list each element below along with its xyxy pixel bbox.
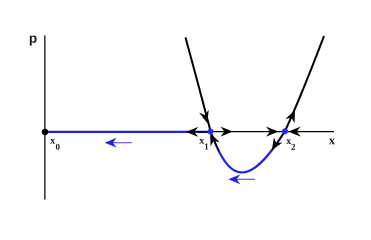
p-axis (vertical axis) [44, 36, 46, 200]
wire blue trajectory x0 to x1 on axis [45, 131, 211, 133]
arrow up-left into x1 along blue dip [207, 133, 217, 144]
arrow up-right out of x2 along right branch [287, 110, 297, 121]
p-axis label [30, 36, 37, 46]
black separatrix left branch into x1 [186, 38, 211, 132]
label x1 [199, 139, 204, 144]
arrow right on axis right of x1 [222, 128, 231, 135]
arrow left on axis left of x1 [187, 128, 196, 135]
node x0 black dot [42, 129, 49, 136]
label x0 [50, 139, 55, 144]
black shaft over blue dip near x2 [276, 133, 285, 145]
x-axis label [329, 139, 335, 145]
x-axis segment from x1 to right end [211, 131, 335, 133]
blue flow arrow under dip (leftward) [230, 176, 255, 183]
node x1 blue dot [208, 129, 214, 135]
label x2 [286, 139, 291, 144]
arrow down-left out of x2 along blue dip [269, 140, 280, 151]
black separatrix right branch out of x2 [285, 36, 324, 131]
arrow right on axis toward x2 [268, 128, 277, 135]
black shaft of leftward axis arrow at x1 [196, 131, 211, 133]
blue flow arrow on axis segment (leftward) [106, 139, 132, 146]
arrow down into x1 along left branch [201, 112, 210, 123]
node x2 blue dot [282, 128, 288, 134]
blue trajectory dip from x2 to x1 below axis [211, 131, 286, 172]
black shaft over blue dip near x1 [214, 139, 220, 151]
arrow left on axis toward x2 from right [290, 128, 299, 135]
